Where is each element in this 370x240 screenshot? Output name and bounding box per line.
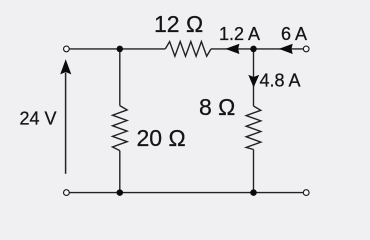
wire middle branch lower — [119, 151, 121, 193]
voltage source arrow 24 V shaft — [65, 73, 67, 174]
current arrowhead 1.2 A pointing left — [225, 44, 239, 54]
wire bottom rail — [70, 192, 304, 194]
junction node top right — [250, 46, 257, 53]
wire middle branch upper — [119, 49, 121, 106]
current arrowhead 4.8 A pointing down — [248, 75, 259, 88]
junction node bottom right — [250, 189, 257, 196]
svg-text:6 A: 6 A — [281, 24, 307, 44]
svg-text:12 Ω: 12 Ω — [154, 11, 203, 37]
terminal bottom right — [303, 190, 309, 196]
junction node bottom middle — [117, 189, 124, 196]
wire top rail left segment — [70, 48, 166, 50]
svg-text:4.8 A: 4.8 A — [260, 70, 301, 90]
wire top rail right segment — [211, 48, 303, 50]
terminal bottom left — [64, 190, 70, 196]
junction node top middle — [117, 46, 124, 53]
terminal top right — [303, 46, 309, 52]
terminal top left — [64, 46, 70, 52]
svg-text:8 Ω: 8 Ω — [199, 94, 235, 120]
wire right branch upper — [253, 49, 255, 106]
voltage source arrowhead 24 V pointing up — [60, 59, 71, 74]
svg-text:20 Ω: 20 Ω — [137, 125, 186, 151]
resistor 12 ohm zigzag — [165, 42, 211, 57]
current arrowhead 6 A pointing left — [279, 44, 293, 54]
wire right branch lower — [253, 150, 255, 193]
svg-text:24 V: 24 V — [20, 108, 57, 128]
resistor 20 ohm zigzag — [113, 106, 128, 151]
svg-text:1.2 A: 1.2 A — [219, 24, 260, 44]
resistor 8 ohm zigzag — [246, 106, 261, 150]
